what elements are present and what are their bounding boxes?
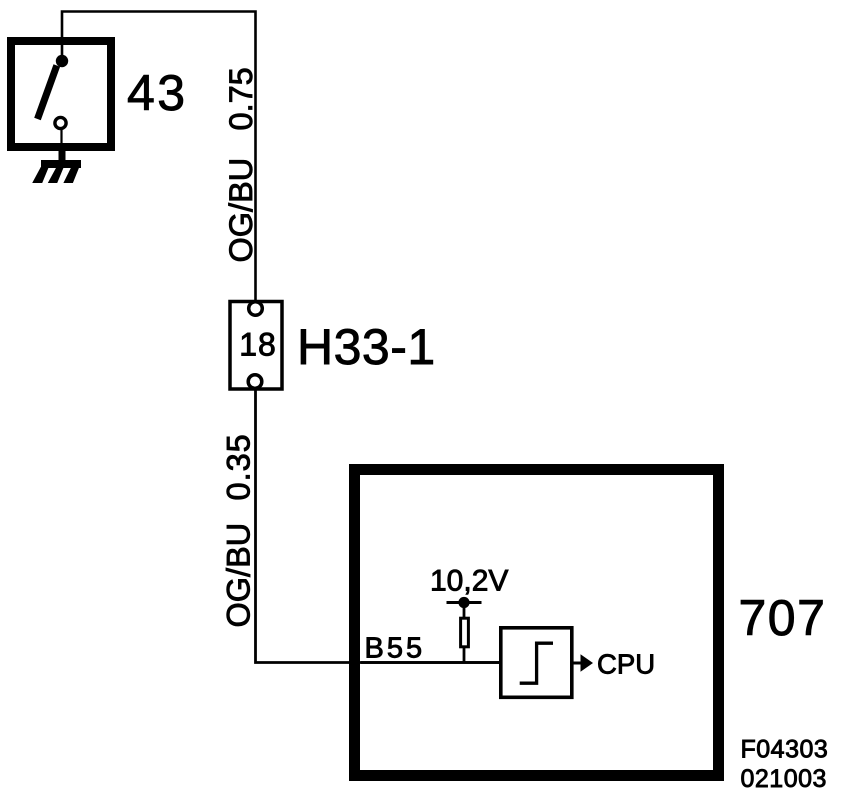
connector H33-1 box bbox=[230, 302, 282, 390]
svg-text:18: 18 bbox=[239, 327, 277, 363]
svg-text:021003: 021003 bbox=[741, 765, 827, 793]
footer date 021003 bbox=[741, 765, 827, 793]
supply junction dot bbox=[458, 597, 469, 608]
label 43 bbox=[127, 65, 188, 121]
wire from switch 43 top, right and down to connector H33-1 pin 18 bbox=[62, 12, 256, 303]
arrowhead to CPU bbox=[581, 654, 594, 672]
wire from trigger to CPU arrow bbox=[574, 662, 583, 665]
svg-text:707: 707 bbox=[739, 590, 827, 646]
stub from box to ground bbox=[59, 147, 66, 161]
ground symbol bbox=[32, 160, 81, 183]
resistor lead top bbox=[463, 603, 466, 618]
switch S43 box bbox=[11, 41, 111, 147]
schmitt trigger step symbol bbox=[520, 643, 553, 683]
svg-text:43: 43 bbox=[127, 65, 188, 121]
svg-text:B55: B55 bbox=[365, 633, 426, 665]
supply label 10,2V bbox=[430, 565, 508, 598]
svg-text:0.75: 0.75 bbox=[223, 67, 259, 130]
svg-text:OG/BU: OG/BU bbox=[221, 523, 257, 628]
connector pin circle bottom bbox=[248, 375, 262, 389]
svg-text:OG/BU: OG/BU bbox=[223, 158, 259, 263]
connector pin circle top bbox=[249, 302, 263, 316]
switch lever bbox=[38, 66, 57, 120]
label CPU bbox=[597, 649, 655, 680]
pin label B55 bbox=[365, 633, 426, 665]
label 707 bbox=[739, 590, 827, 646]
wire label 0.35 bbox=[221, 433, 257, 500]
supply rail bar bbox=[447, 601, 482, 604]
footer figure number F04303 bbox=[741, 736, 829, 764]
label H33-1 bbox=[297, 319, 436, 375]
schmitt trigger box bbox=[501, 628, 572, 698]
wire from connector down and right into unit 707 pin B55 bbox=[256, 389, 501, 663]
wire inside 707 from B55 to trigger bbox=[361, 661, 500, 664]
svg-text:0.35: 0.35 bbox=[221, 433, 257, 500]
switch open contact circle bbox=[55, 117, 66, 128]
wire label OG/BU (upper) bbox=[223, 158, 259, 263]
pin number 18 bbox=[239, 327, 277, 363]
svg-text:CPU: CPU bbox=[597, 649, 655, 680]
svg-text:F04303: F04303 bbox=[741, 736, 829, 764]
control unit 707 box bbox=[355, 470, 719, 776]
resistor R (pull-up) bbox=[461, 618, 469, 647]
wire label OG/BU (lower) bbox=[221, 523, 257, 628]
svg-text:10,2V: 10,2V bbox=[430, 565, 508, 598]
resistor lead bottom bbox=[463, 648, 466, 664]
switch contact dot bbox=[56, 55, 68, 67]
switch lower stub wire bbox=[60, 129, 62, 147]
wire label 0.75 bbox=[223, 67, 259, 130]
svg-text:H33-1: H33-1 bbox=[297, 319, 436, 375]
